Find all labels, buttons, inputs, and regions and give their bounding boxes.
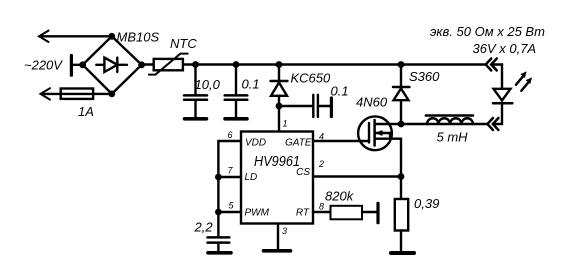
svg-text:5 mH: 5 mH bbox=[437, 130, 469, 145]
svg-text:1A: 1A bbox=[78, 104, 94, 119]
pin 3 GND wire bbox=[277, 224, 279, 250]
wire inductor to connector bbox=[473, 123, 487, 125]
wire drain to inductor bbox=[401, 123, 427, 125]
pin 6 VDD wire bbox=[218, 141, 241, 236]
node PWM bbox=[215, 209, 222, 216]
svg-text:RT: RT bbox=[296, 208, 310, 219]
node rail VD KC650 bbox=[276, 61, 283, 68]
svg-text:8: 8 bbox=[319, 202, 324, 212]
svg-text:~220V: ~220V bbox=[24, 58, 63, 73]
pin 4 GATE wire bbox=[313, 140, 369, 142]
ground C1 bbox=[185, 117, 207, 121]
svg-text:2: 2 bbox=[318, 159, 324, 169]
wire bottom input bbox=[42, 93, 112, 95]
svg-text:1: 1 bbox=[283, 119, 288, 129]
diode VD2 S360 bbox=[400, 65, 402, 88]
capacitor C4 2,2 bbox=[208, 236, 230, 239]
svg-text:36V х 0,7А: 36V х 0,7А bbox=[473, 41, 537, 56]
fuse FU1 1A bbox=[61, 89, 93, 99]
svg-text:CS: CS bbox=[296, 167, 310, 178]
node rail C2 bbox=[233, 61, 240, 68]
node rail C1 bbox=[192, 61, 199, 68]
arrow top input bbox=[39, 31, 49, 42]
inductor L1 5mH core bbox=[426, 114, 473, 117]
ground R1 bbox=[376, 203, 379, 222]
svg-text:HV9961: HV9961 bbox=[254, 154, 300, 170]
svg-text:0.1: 0.1 bbox=[331, 84, 349, 99]
capacitor C1 10,0 bbox=[194, 65, 196, 95]
svg-text:3: 3 bbox=[282, 226, 287, 236]
bridge rectifier MB10S bbox=[83, 36, 142, 94]
connector X2 chevrons bbox=[487, 118, 493, 130]
node VIN bbox=[276, 103, 283, 110]
inductor L1 5mH bbox=[427, 118, 473, 124]
svg-text:экв. 50 Ом х 25 Вт: экв. 50 Ом х 25 Вт bbox=[430, 24, 545, 39]
zener KC650 bbox=[278, 65, 280, 82]
svg-text:VDD: VDD bbox=[245, 138, 266, 149]
wire node to C3 bbox=[279, 105, 312, 107]
svg-text:LD: LD bbox=[245, 172, 258, 183]
svg-text:2,2: 2,2 bbox=[194, 220, 214, 235]
capacitor C3 0.1 bbox=[312, 95, 314, 117]
svg-text:4: 4 bbox=[319, 132, 324, 142]
svg-text:4N60: 4N60 bbox=[356, 95, 388, 110]
thermistor NTC bbox=[154, 59, 183, 70]
pin 5 PWM wire bbox=[218, 211, 241, 213]
wire connector to LED bbox=[495, 103, 503, 124]
node bridge top bbox=[108, 33, 115, 40]
svg-text:GATE: GATE bbox=[285, 138, 312, 149]
LED arrows bbox=[516, 76, 523, 85]
wire KC650 to pin1 bbox=[278, 96, 280, 132]
ground pin3 bbox=[264, 249, 291, 253]
svg-text:PWM: PWM bbox=[245, 208, 270, 219]
connector X1 chevrons bbox=[486, 59, 492, 71]
terminal ~220V bbox=[70, 56, 73, 76]
ground C4 bbox=[208, 251, 231, 255]
resistor R1 820k bbox=[331, 206, 363, 220]
node rail VD2 bbox=[398, 61, 405, 68]
IC U1 HV9961 bbox=[241, 132, 313, 224]
node LD bbox=[215, 174, 222, 181]
svg-text:MB10S: MB10S bbox=[117, 30, 160, 45]
LED HL1 bbox=[494, 89, 511, 101]
svg-text:10,0: 10,0 bbox=[195, 77, 221, 92]
bridge diode bbox=[96, 64, 127, 66]
wire main rail bbox=[142, 63, 486, 65]
svg-text:KC650: KC650 bbox=[291, 71, 332, 86]
pin 7 LD wire bbox=[218, 176, 241, 178]
ground C3 bbox=[330, 98, 333, 117]
svg-text:0,39: 0,39 bbox=[414, 196, 439, 211]
capacitor C2 0.1 bbox=[235, 65, 237, 95]
svg-text:NTC: NTC bbox=[170, 36, 197, 51]
node bridge right bbox=[138, 61, 145, 68]
resistor R2 0,39 bbox=[400, 177, 402, 200]
pin 2 CS wire bbox=[313, 175, 401, 177]
arrow bottom input bbox=[41, 88, 51, 99]
node bridge bottom bbox=[108, 91, 115, 98]
ground C2 bbox=[225, 117, 247, 121]
wire rail corner to LED bbox=[493, 65, 502, 89]
svg-text:6: 6 bbox=[228, 130, 233, 140]
transistor Q1 4N60 bbox=[358, 116, 392, 150]
pin 8 RT wire bbox=[313, 211, 331, 213]
svg-text:S360: S360 bbox=[409, 69, 440, 84]
svg-text:820k: 820k bbox=[325, 189, 355, 204]
wire top input bbox=[40, 35, 112, 37]
node drain bbox=[398, 121, 405, 128]
svg-text:0.1: 0.1 bbox=[242, 77, 260, 92]
wire terminal to bridge bbox=[71, 64, 82, 66]
ground R2 bbox=[391, 251, 414, 255]
node CS bbox=[398, 173, 405, 180]
node bridge left bbox=[79, 61, 86, 68]
